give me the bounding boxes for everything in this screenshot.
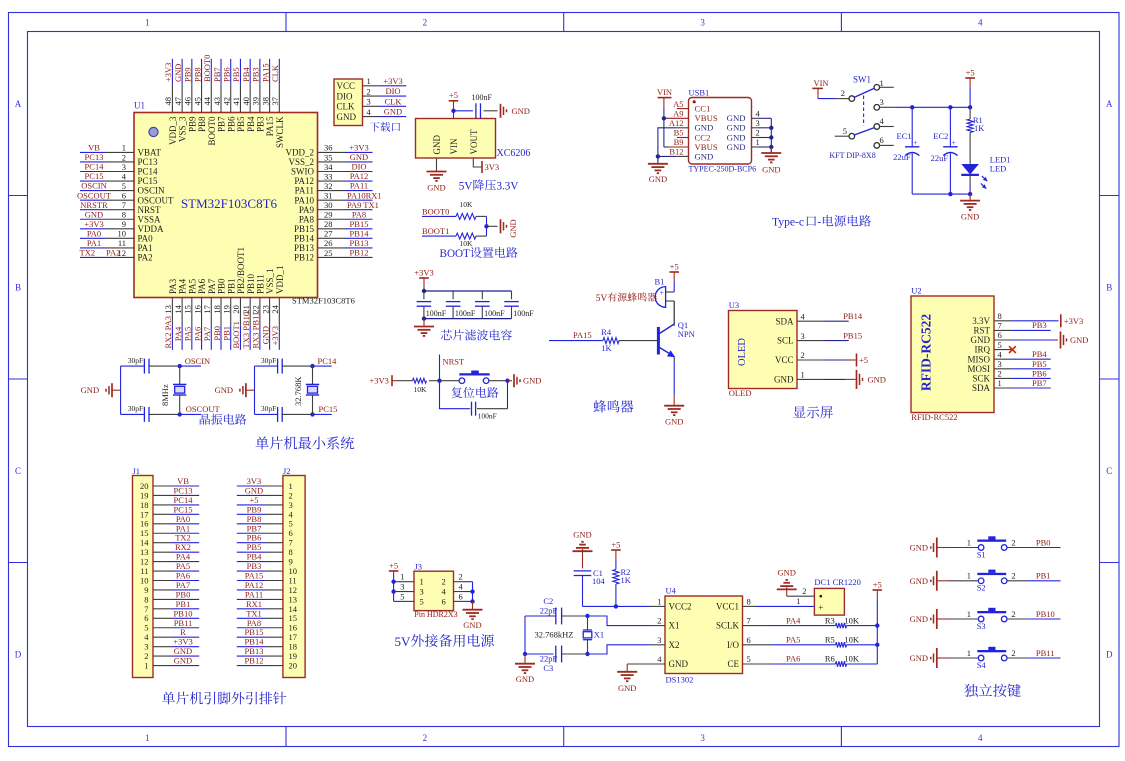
svg-text:OSCOUT: OSCOUT xyxy=(77,190,112,200)
svg-text:4: 4 xyxy=(978,733,983,743)
svg-text:5: 5 xyxy=(998,340,1002,350)
svg-text:PA1: PA1 xyxy=(138,243,153,253)
svg-text:IRQ: IRQ xyxy=(975,345,991,355)
svg-text:VSS_1: VSS_1 xyxy=(265,268,275,294)
svg-text:+: + xyxy=(818,602,823,612)
svg-text:PB3: PB3 xyxy=(255,116,265,132)
svg-text:PC13: PC13 xyxy=(85,152,104,162)
svg-text:+: + xyxy=(913,138,917,147)
svg-text:R3: R3 xyxy=(825,615,835,625)
svg-text:2: 2 xyxy=(841,88,845,98)
svg-text:100nF: 100nF xyxy=(478,411,497,420)
svg-text:A5: A5 xyxy=(673,99,683,109)
svg-text:PB10: PB10 xyxy=(246,273,256,294)
svg-text:39: 39 xyxy=(251,97,261,106)
svg-text:4: 4 xyxy=(978,18,983,28)
svg-text:15: 15 xyxy=(183,305,193,314)
svg-text:PA6: PA6 xyxy=(192,327,202,341)
svg-text:30pF: 30pF xyxy=(128,356,143,365)
svg-text:1: 1 xyxy=(756,137,760,147)
svg-text:10K: 10K xyxy=(844,615,860,625)
svg-text:100nF: 100nF xyxy=(472,93,493,102)
svg-text:2: 2 xyxy=(657,616,661,626)
svg-text:PA15: PA15 xyxy=(260,63,270,82)
svg-text:1: 1 xyxy=(967,571,971,581)
svg-text:A: A xyxy=(15,99,22,109)
svg-text:3: 3 xyxy=(756,118,760,128)
svg-text:8: 8 xyxy=(747,596,751,606)
svg-text:GND: GND xyxy=(174,656,192,666)
svg-text:GND: GND xyxy=(384,107,402,117)
svg-text:VIN: VIN xyxy=(657,87,672,97)
svg-text:VSS_2: VSS_2 xyxy=(288,157,314,167)
svg-text:3V3: 3V3 xyxy=(485,162,500,172)
svg-text:PA9: PA9 xyxy=(299,205,315,215)
svg-text:3: 3 xyxy=(657,635,661,645)
svg-text:+3V3: +3V3 xyxy=(1064,316,1083,326)
svg-text:10K: 10K xyxy=(844,635,860,645)
svg-text:D: D xyxy=(1106,650,1113,660)
svg-text:8: 8 xyxy=(998,311,1002,321)
svg-text:47: 47 xyxy=(173,97,183,106)
svg-text:GND: GND xyxy=(727,123,746,133)
svg-text:PA2: PA2 xyxy=(138,253,153,263)
svg-text:PA10: PA10 xyxy=(294,195,314,205)
svg-text:RFID-RC522: RFID-RC522 xyxy=(919,314,934,391)
svg-text:2: 2 xyxy=(756,128,760,138)
svg-text:SCLK: SCLK xyxy=(716,621,740,631)
svg-text:6: 6 xyxy=(459,591,463,601)
svg-text:2: 2 xyxy=(459,572,463,582)
svg-text:10K: 10K xyxy=(460,200,474,209)
svg-text:PB9: PB9 xyxy=(187,116,197,132)
svg-text:41: 41 xyxy=(231,97,241,106)
svg-text:GND: GND xyxy=(618,683,636,693)
svg-text:EC2: EC2 xyxy=(933,131,948,141)
svg-text:RFID-RC522: RFID-RC522 xyxy=(911,412,957,422)
svg-text:20: 20 xyxy=(289,660,298,670)
svg-text:3: 3 xyxy=(998,359,1002,369)
svg-text:22uF: 22uF xyxy=(893,152,911,162)
svg-text:23: 23 xyxy=(260,305,270,314)
svg-text:+5: +5 xyxy=(670,261,679,271)
svg-text:CC2: CC2 xyxy=(695,132,711,142)
svg-text:S3: S3 xyxy=(977,621,986,631)
svg-text:U2: U2 xyxy=(911,286,921,296)
svg-text:+3V3: +3V3 xyxy=(270,326,280,345)
svg-text:31: 31 xyxy=(324,190,333,200)
svg-text:PC15: PC15 xyxy=(138,176,159,186)
svg-text:GND: GND xyxy=(337,112,357,122)
svg-text:1: 1 xyxy=(144,660,148,670)
svg-text:3: 3 xyxy=(420,587,424,597)
svg-text:1: 1 xyxy=(967,609,971,619)
svg-text:PA9 TX1: PA9 TX1 xyxy=(347,200,379,210)
svg-text:32: 32 xyxy=(324,181,333,191)
svg-text:CC1: CC1 xyxy=(695,104,711,114)
svg-text:PB7: PB7 xyxy=(212,67,222,82)
svg-text:PC13: PC13 xyxy=(138,157,159,167)
svg-text:GND: GND xyxy=(727,113,746,123)
svg-text:VDD_1: VDD_1 xyxy=(275,266,285,295)
svg-text:45: 45 xyxy=(192,97,202,106)
svg-text:5: 5 xyxy=(122,181,126,191)
svg-text:X1: X1 xyxy=(669,621,680,631)
svg-text:SDA: SDA xyxy=(972,383,991,393)
svg-text:104: 104 xyxy=(592,576,606,586)
svg-text:PB1: PB1 xyxy=(226,278,236,294)
svg-text:PB13: PB13 xyxy=(350,238,369,248)
svg-text:3: 3 xyxy=(122,162,126,172)
svg-text:22pF: 22pF xyxy=(540,605,558,615)
svg-text:GND: GND xyxy=(727,132,746,142)
svg-text:OLED: OLED xyxy=(729,388,752,398)
svg-text:GND: GND xyxy=(173,64,183,82)
svg-text:PB5: PB5 xyxy=(236,116,246,132)
svg-text:SCL: SCL xyxy=(777,336,794,346)
svg-text:RST: RST xyxy=(973,326,990,336)
svg-text:+5: +5 xyxy=(389,560,398,570)
svg-text:GND: GND xyxy=(777,568,795,578)
svg-text:7: 7 xyxy=(998,321,1002,331)
svg-text:PA6: PA6 xyxy=(197,278,207,294)
svg-text:S2: S2 xyxy=(977,583,986,593)
svg-text:1K: 1K xyxy=(621,575,632,585)
svg-text:VBUS: VBUS xyxy=(695,113,718,123)
svg-text:GND: GND xyxy=(432,135,442,155)
svg-text:PB14: PB14 xyxy=(350,228,370,238)
svg-text:PC14: PC14 xyxy=(85,162,105,172)
svg-text:3: 3 xyxy=(801,331,805,341)
svg-text:1K: 1K xyxy=(601,343,612,353)
svg-text:PB4: PB4 xyxy=(1032,349,1047,359)
svg-text:10K: 10K xyxy=(460,239,474,248)
svg-text:PA5: PA5 xyxy=(183,327,193,341)
svg-text:MOSI: MOSI xyxy=(967,364,990,374)
svg-text:9: 9 xyxy=(122,219,126,229)
svg-text:PC15: PC15 xyxy=(85,171,104,181)
svg-text:-: - xyxy=(817,216,821,229)
svg-text:1: 1 xyxy=(145,733,150,743)
svg-text:GND: GND xyxy=(463,620,481,630)
svg-text:30pF: 30pF xyxy=(261,404,276,413)
svg-text:100nF: 100nF xyxy=(426,309,447,318)
svg-text:3: 3 xyxy=(880,97,884,107)
svg-text:GND: GND xyxy=(695,151,714,161)
svg-text:GND: GND xyxy=(910,614,928,624)
svg-text:BOOT1: BOOT1 xyxy=(231,321,241,348)
svg-text:GND: GND xyxy=(427,183,445,193)
svg-text:PB7: PB7 xyxy=(1032,378,1047,388)
svg-text:+3V3: +3V3 xyxy=(84,219,103,229)
svg-text:TYPEC-250D-BCP6: TYPEC-250D-BCP6 xyxy=(689,165,757,174)
svg-text:PB15: PB15 xyxy=(350,219,369,229)
svg-text:SWIO: SWIO xyxy=(291,167,314,177)
svg-text:6: 6 xyxy=(122,190,126,200)
svg-text:+3V3: +3V3 xyxy=(349,143,368,153)
svg-text:X1: X1 xyxy=(594,629,604,639)
svg-text:PB5: PB5 xyxy=(231,67,241,82)
svg-text:PB1: PB1 xyxy=(222,326,232,341)
svg-text:NRSTR: NRSTR xyxy=(80,200,108,210)
svg-text:VIN: VIN xyxy=(449,138,459,154)
svg-text:5: 5 xyxy=(400,591,404,601)
svg-text:PA11: PA11 xyxy=(350,181,368,191)
svg-text:VCC1: VCC1 xyxy=(716,602,739,612)
svg-text:VBAT: VBAT xyxy=(138,148,162,158)
svg-text:GND: GND xyxy=(727,142,746,152)
svg-text:100nF: 100nF xyxy=(484,309,505,318)
svg-text:BOOT1: BOOT1 xyxy=(422,226,449,236)
svg-text:14: 14 xyxy=(173,304,183,313)
svg-text:OSCIN: OSCIN xyxy=(81,181,107,191)
svg-text:PA15: PA15 xyxy=(265,116,275,136)
svg-text:33: 33 xyxy=(324,171,333,181)
svg-text:PB7: PB7 xyxy=(217,116,227,132)
svg-text:+5: +5 xyxy=(449,90,458,100)
svg-text:OSCIN: OSCIN xyxy=(138,186,166,196)
svg-text:PB5: PB5 xyxy=(1032,359,1047,369)
svg-text:PC14: PC14 xyxy=(138,167,159,177)
svg-text:PA7: PA7 xyxy=(202,327,212,341)
svg-text:PA4: PA4 xyxy=(178,278,188,294)
svg-text:BOOT: BOOT xyxy=(440,248,471,260)
svg-text:+: + xyxy=(660,288,664,297)
svg-text:GND: GND xyxy=(774,375,794,385)
svg-text:PB12: PB12 xyxy=(294,253,314,263)
svg-text:EC1: EC1 xyxy=(897,131,912,141)
svg-text:GND: GND xyxy=(1070,335,1088,345)
svg-text:16: 16 xyxy=(192,305,202,314)
svg-text:PC15: PC15 xyxy=(319,404,338,414)
svg-text:35: 35 xyxy=(324,152,333,162)
svg-text:DIO: DIO xyxy=(385,86,400,96)
svg-text:R4: R4 xyxy=(601,327,612,337)
svg-text:1: 1 xyxy=(420,577,424,587)
svg-text:32.768K: 32.768K xyxy=(293,376,303,406)
svg-text:TX2: TX2 xyxy=(80,248,96,258)
svg-text:PA5: PA5 xyxy=(187,278,197,294)
svg-text:RX2 PA3: RX2 PA3 xyxy=(163,316,173,349)
svg-text:CLK: CLK xyxy=(270,64,280,82)
svg-text:PB8: PB8 xyxy=(192,67,202,82)
svg-text:PB0: PB0 xyxy=(217,278,227,294)
svg-text:I/O: I/O xyxy=(727,640,739,650)
svg-text:PB13: PB13 xyxy=(294,243,315,253)
svg-text:OSCIN: OSCIN xyxy=(185,356,211,366)
svg-text:B5: B5 xyxy=(674,128,684,138)
svg-text:U1: U1 xyxy=(134,101,145,111)
svg-text:6: 6 xyxy=(747,635,751,645)
svg-text:C: C xyxy=(1106,466,1112,476)
svg-text:SWCLK: SWCLK xyxy=(275,116,285,148)
svg-text:2: 2 xyxy=(1011,609,1015,619)
svg-text:PA0: PA0 xyxy=(138,233,154,243)
svg-text:A9: A9 xyxy=(673,109,683,119)
svg-text:PB2/BOOT1: PB2/BOOT1 xyxy=(236,247,246,294)
svg-text:32.768kHZ: 32.768kHZ xyxy=(535,630,574,640)
svg-text:5: 5 xyxy=(420,596,424,606)
svg-text:17: 17 xyxy=(202,305,212,314)
svg-text:XC6206: XC6206 xyxy=(497,148,531,159)
svg-text:GND: GND xyxy=(868,374,886,384)
svg-text:MISO: MISO xyxy=(967,354,990,364)
svg-text:PB10: PB10 xyxy=(1036,609,1055,619)
svg-text:OSCOUT: OSCOUT xyxy=(186,404,221,414)
svg-text:13: 13 xyxy=(163,305,173,314)
svg-text:30: 30 xyxy=(324,200,333,210)
svg-text:+: + xyxy=(951,138,955,147)
svg-text:30pF: 30pF xyxy=(261,356,276,365)
svg-text:PB12: PB12 xyxy=(245,656,264,666)
svg-text:+5: +5 xyxy=(966,67,975,77)
svg-text:GND: GND xyxy=(961,212,979,222)
svg-text:1: 1 xyxy=(880,78,884,88)
svg-text:USB1: USB1 xyxy=(689,88,710,98)
svg-text:GND: GND xyxy=(350,152,368,162)
svg-text:5: 5 xyxy=(843,126,847,136)
svg-text:6: 6 xyxy=(880,135,884,145)
svg-text:PB4: PB4 xyxy=(246,116,256,132)
svg-text:PA5: PA5 xyxy=(786,635,800,645)
svg-text:STM32F103C8T6: STM32F103C8T6 xyxy=(181,196,278,211)
svg-text:2: 2 xyxy=(802,586,806,596)
svg-text:3: 3 xyxy=(700,18,705,28)
svg-text:VDDA: VDDA xyxy=(138,224,164,234)
svg-text:PA6: PA6 xyxy=(786,654,800,664)
svg-text:CLK: CLK xyxy=(337,102,356,112)
svg-text:GND: GND xyxy=(516,674,534,684)
svg-text:PA1: PA1 xyxy=(87,238,101,248)
svg-text:GND: GND xyxy=(695,123,714,133)
svg-text:2: 2 xyxy=(122,152,126,162)
svg-text:VOUT: VOUT xyxy=(469,129,479,154)
svg-text:+3V3: +3V3 xyxy=(383,76,402,86)
svg-text:B12: B12 xyxy=(669,147,683,157)
svg-text:C3: C3 xyxy=(543,663,553,673)
svg-text:37: 37 xyxy=(270,97,280,106)
svg-text:PB12: PB12 xyxy=(350,248,369,258)
svg-text:LED: LED xyxy=(990,164,1007,174)
svg-text:100nF: 100nF xyxy=(513,309,534,318)
svg-text:7: 7 xyxy=(122,200,126,210)
svg-text:PB15: PB15 xyxy=(294,224,315,234)
svg-text:J3: J3 xyxy=(415,562,423,572)
svg-text:PB9: PB9 xyxy=(183,67,193,82)
svg-text:PA7: PA7 xyxy=(207,278,217,294)
svg-text:U3: U3 xyxy=(729,300,739,310)
svg-text:PA8: PA8 xyxy=(352,209,366,219)
svg-text:GND: GND xyxy=(910,576,928,586)
svg-text:PB11: PB11 xyxy=(1036,648,1055,658)
svg-text:5V: 5V xyxy=(596,294,608,304)
svg-text:1: 1 xyxy=(657,596,661,606)
svg-text:+5: +5 xyxy=(859,355,868,365)
svg-text:PB1: PB1 xyxy=(1036,571,1051,581)
svg-text:OSCOUT: OSCOUT xyxy=(138,195,175,205)
svg-text:GND: GND xyxy=(512,106,530,116)
svg-text:PA8: PA8 xyxy=(299,214,315,224)
svg-text:VDD_2: VDD_2 xyxy=(286,148,315,158)
svg-text:2: 2 xyxy=(801,350,805,360)
svg-text:R6: R6 xyxy=(825,654,835,664)
svg-text:GND: GND xyxy=(508,219,518,237)
svg-text:10: 10 xyxy=(118,229,127,239)
svg-text:CE: CE xyxy=(727,659,739,669)
svg-text:2: 2 xyxy=(1011,648,1015,658)
svg-text:PB15: PB15 xyxy=(843,330,862,340)
svg-text:A: A xyxy=(1106,99,1113,109)
svg-text:43: 43 xyxy=(212,97,222,106)
svg-text:30pF: 30pF xyxy=(128,404,143,413)
svg-text:GND: GND xyxy=(910,543,928,553)
svg-text:1: 1 xyxy=(122,143,126,153)
svg-text:VB: VB xyxy=(88,143,100,153)
svg-text:NRST: NRST xyxy=(138,205,162,215)
svg-text:DS1302: DS1302 xyxy=(666,675,694,685)
svg-text:PB8: PB8 xyxy=(197,116,207,132)
svg-text:U4: U4 xyxy=(666,586,677,596)
svg-text:GND: GND xyxy=(971,335,991,345)
svg-text:VSSA: VSSA xyxy=(138,214,162,224)
svg-text:VCC: VCC xyxy=(775,355,794,365)
svg-text:NRST: NRST xyxy=(443,357,466,367)
svg-text:GND: GND xyxy=(649,174,667,184)
svg-text:+3V3: +3V3 xyxy=(370,375,389,385)
svg-text:8: 8 xyxy=(122,210,126,220)
svg-text:1: 1 xyxy=(801,370,805,380)
svg-text:24: 24 xyxy=(270,304,280,313)
svg-text:PB6: PB6 xyxy=(226,116,236,132)
svg-text:34: 34 xyxy=(324,162,333,172)
svg-text:40: 40 xyxy=(241,97,251,106)
svg-text:18: 18 xyxy=(212,305,222,314)
svg-text:3: 3 xyxy=(700,733,705,743)
svg-text:PA3: PA3 xyxy=(168,278,178,294)
svg-text:PA10RX1: PA10RX1 xyxy=(347,190,382,200)
svg-text:PA12: PA12 xyxy=(350,171,369,181)
svg-text:PA4: PA4 xyxy=(786,615,801,625)
svg-text:S4: S4 xyxy=(977,660,987,670)
svg-text:PB14: PB14 xyxy=(294,233,315,243)
svg-text:2: 2 xyxy=(998,369,1002,379)
svg-text:RX3 PB11: RX3 PB11 xyxy=(251,312,261,349)
svg-text:PA11: PA11 xyxy=(295,186,314,196)
svg-text:29: 29 xyxy=(324,210,333,220)
svg-text:A12: A12 xyxy=(669,118,684,128)
svg-text:BOOT0: BOOT0 xyxy=(202,55,212,82)
svg-text:VSS_3: VSS_3 xyxy=(178,116,188,142)
svg-text:1: 1 xyxy=(145,18,150,28)
svg-text:2: 2 xyxy=(423,733,428,743)
svg-text:SCK: SCK xyxy=(972,374,990,384)
svg-text:DIO: DIO xyxy=(337,91,353,101)
svg-text:2: 2 xyxy=(442,577,446,587)
svg-text:BOOT0: BOOT0 xyxy=(422,206,449,216)
svg-text:36: 36 xyxy=(324,143,333,153)
svg-text:1: 1 xyxy=(367,76,371,86)
svg-text:B1: B1 xyxy=(655,276,665,286)
svg-text:PA0: PA0 xyxy=(87,228,101,238)
svg-text:25: 25 xyxy=(324,248,333,258)
svg-text:6: 6 xyxy=(998,330,1002,340)
svg-text:GND: GND xyxy=(665,417,683,427)
svg-text:22uF: 22uF xyxy=(931,153,949,163)
svg-text:6: 6 xyxy=(442,596,446,606)
svg-text:GND: GND xyxy=(260,326,270,344)
svg-text:SW1: SW1 xyxy=(853,75,871,85)
svg-text:GND: GND xyxy=(85,209,103,219)
